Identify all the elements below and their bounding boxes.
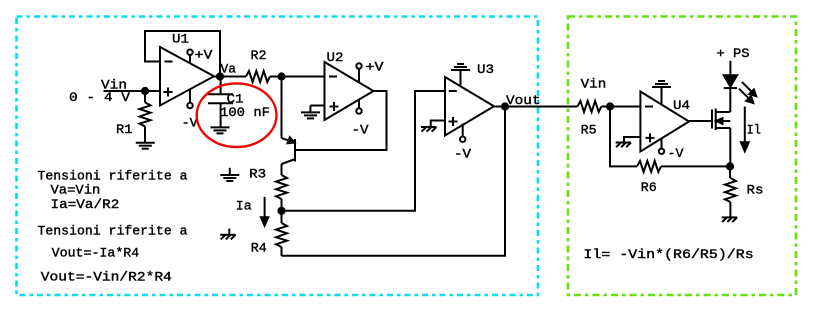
ground earth under R1 bbox=[136, 143, 155, 149]
wire R4 bottom to Vout feedback bbox=[282, 107, 506, 256]
op-amp U4 bbox=[640, 92, 689, 152]
label R3 bbox=[249, 168, 266, 182]
annotation Il formula bbox=[583, 248, 753, 262]
svg-text:U3: U3 bbox=[477, 63, 494, 77]
junction R3/R4 (Ia node) bbox=[278, 208, 284, 214]
svg-text:R2: R2 bbox=[251, 49, 267, 63]
label -V of U3 bbox=[454, 148, 471, 162]
node Va junction bbox=[217, 73, 223, 79]
label R4 bbox=[251, 241, 267, 255]
svg-text:R6: R6 bbox=[641, 181, 657, 195]
resistor R3 bbox=[276, 175, 287, 211]
label C1 bbox=[227, 93, 244, 107]
svg-text:-V: -V bbox=[454, 148, 471, 162]
wire U3 + input to ground bbox=[431, 121, 445, 128]
annotation Ia=Va/R2 bbox=[51, 198, 120, 212]
resistor Rs bbox=[725, 166, 736, 217]
svg-text:-V: -V bbox=[352, 124, 369, 138]
wire Ia node to U3 inverting input bbox=[282, 91, 446, 211]
op-amp U2 bbox=[325, 62, 374, 120]
svg-text:100 nF: 100 nF bbox=[220, 106, 270, 120]
resistor R1 bbox=[140, 91, 151, 143]
wire U4 output to MOSFET gate bbox=[689, 120, 712, 122]
svg-text:+ PS: + PS bbox=[717, 47, 750, 61]
svg-text:Vout=-Vin/R2*R4: Vout=-Vin/R2*R4 bbox=[41, 270, 172, 284]
label -V of U4 bbox=[668, 147, 684, 161]
group box left circuit (cyan dashed) bbox=[17, 17, 539, 296]
op-amp U3 bbox=[445, 77, 494, 136]
LED D1 bbox=[724, 61, 737, 88]
svg-text:R1: R1 bbox=[116, 123, 133, 137]
group box right circuit (green dashed) bbox=[568, 17, 796, 296]
resistor R2 bbox=[246, 71, 270, 82]
label Rs bbox=[747, 184, 764, 198]
ground chassis at U4 + input bbox=[616, 143, 631, 148]
LED emission arrow 1 bbox=[742, 82, 756, 96]
label R5 bbox=[581, 124, 597, 138]
wire R5 to U4 inverting input bbox=[601, 106, 640, 108]
wire emitter to R2 junction bbox=[281, 77, 283, 139]
junction R5/R6 node bbox=[607, 103, 613, 109]
ground earth inline (Tensioni 1) bbox=[220, 168, 239, 181]
MOSFET M1 (NMOS) bbox=[712, 89, 730, 166]
label +V of U1 bbox=[195, 49, 214, 63]
ground earth under C1 bbox=[211, 127, 230, 133]
svg-text:Ia=Va/R2: Ia=Va/R2 bbox=[51, 198, 120, 212]
node Vin label bbox=[101, 79, 127, 93]
junction Vin/R1 bbox=[142, 88, 148, 94]
wire U4 + input to ground bbox=[624, 137, 640, 143]
svg-text:Tensioni riferite a: Tensioni riferite a bbox=[38, 170, 188, 184]
label U2 bbox=[327, 51, 344, 65]
svg-text:Rs: Rs bbox=[747, 184, 764, 198]
svg-text:Il: Il bbox=[747, 124, 762, 138]
label R6 bbox=[641, 181, 657, 195]
svg-text:C1: C1 bbox=[227, 93, 244, 107]
ground earth above U4 (+V pin) bbox=[652, 81, 671, 105]
node Vout junction bbox=[502, 103, 508, 109]
svg-text:Vin: Vin bbox=[581, 78, 607, 92]
ground chassis inline (Tensioni 2) bbox=[220, 229, 235, 240]
svg-text:R3: R3 bbox=[249, 168, 266, 182]
wire U1 feedback loop bbox=[145, 31, 220, 77]
wire Vout to R5 bbox=[494, 106, 577, 108]
op-amp U1 bbox=[160, 47, 214, 106]
wire R2 to U2 inverting input bbox=[270, 76, 325, 78]
transistor Q1 (PNP) bbox=[282, 137, 296, 175]
svg-text:Vout=-Ia*R4: Vout=-Ia*R4 bbox=[52, 247, 140, 261]
op-amp U1 -V pin bbox=[187, 89, 192, 108]
wire R6 feedback bbox=[610, 107, 637, 167]
ground earth at U2 + input bbox=[301, 112, 320, 118]
LED emission arrow 2 bbox=[739, 89, 753, 103]
op-amp U2 -V pin bbox=[356, 100, 361, 114]
wire U1 output to R2 bbox=[214, 76, 246, 78]
label Il bbox=[747, 124, 762, 138]
wire R6 to source node bbox=[661, 165, 730, 167]
resistor R6 bbox=[637, 161, 661, 172]
wire U2 + input to ground bbox=[310, 106, 324, 113]
annotation Va=Vin bbox=[51, 184, 101, 198]
label + PS power supply bbox=[717, 47, 750, 61]
wire Vin input bbox=[104, 90, 161, 92]
svg-text:-V: -V bbox=[182, 117, 198, 131]
annotation Tensioni riferite a (earth) bbox=[38, 170, 188, 184]
junction R2 / emitter node bbox=[278, 73, 284, 79]
svg-text:Il= -Vin*(R6/R5)/Rs: Il= -Vin*(R6/R5)/Rs bbox=[583, 248, 753, 262]
label Ia bbox=[236, 200, 252, 214]
svg-text:Va: Va bbox=[221, 62, 237, 76]
resistor R5 bbox=[577, 101, 601, 112]
svg-text:+V: +V bbox=[366, 61, 385, 75]
label -V of U1 bbox=[182, 117, 198, 131]
label 100 nF value bbox=[220, 106, 270, 120]
op-amp U4 -V pin bbox=[659, 139, 664, 155]
svg-text:R4: R4 bbox=[251, 241, 267, 255]
label 0 - 4 V input range bbox=[69, 91, 131, 105]
label R1 bbox=[116, 123, 133, 137]
current arrow Ia bbox=[261, 197, 269, 226]
label U3 bbox=[477, 63, 494, 77]
label R2 bbox=[251, 49, 267, 63]
op-amp U3 -V pin bbox=[460, 124, 465, 142]
capacitor C1 bbox=[208, 77, 233, 128]
junction MOSFET source / R6 / Rs bbox=[727, 163, 733, 169]
current arrow Il bbox=[741, 107, 749, 152]
svg-text:-V: -V bbox=[668, 147, 684, 161]
ground chassis under Rs bbox=[722, 217, 737, 222]
annotation Vout=-Ia*R4 bbox=[52, 247, 140, 261]
resistor R4 bbox=[276, 211, 287, 256]
wire U2 output to transistor base bbox=[295, 91, 387, 150]
label +V of U2 bbox=[366, 61, 385, 75]
ground chassis at U3 + input bbox=[421, 127, 436, 132]
label Vout bbox=[506, 94, 541, 108]
label U4 bbox=[673, 99, 690, 113]
svg-text:U4: U4 bbox=[673, 99, 690, 113]
label Vin (right box) bbox=[581, 78, 607, 92]
svg-text:Ia: Ia bbox=[236, 200, 252, 214]
svg-text:+V: +V bbox=[195, 49, 214, 63]
highlight red ellipse around C1 bbox=[197, 83, 277, 147]
op-amp U2 +V pin bbox=[356, 63, 361, 82]
op-amp U1 +V pin bbox=[187, 50, 192, 64]
ground earth above U3 (+V pin) bbox=[451, 64, 470, 85]
label U1 bbox=[172, 33, 189, 47]
label Va bbox=[221, 62, 237, 76]
svg-text:0 - 4 V: 0 - 4 V bbox=[69, 91, 131, 105]
annotation Tensioni riferite a (chassis) bbox=[38, 225, 188, 239]
svg-text:R5: R5 bbox=[581, 124, 597, 138]
svg-text:Tensioni riferite a: Tensioni riferite a bbox=[38, 225, 188, 239]
svg-text:U1: U1 bbox=[172, 33, 189, 47]
annotation Vout=-Vin/R2*R4 bbox=[41, 270, 172, 284]
svg-text:Va=Vin: Va=Vin bbox=[51, 184, 101, 198]
label -V of U2 bbox=[352, 124, 369, 138]
svg-text:U2: U2 bbox=[327, 51, 344, 65]
